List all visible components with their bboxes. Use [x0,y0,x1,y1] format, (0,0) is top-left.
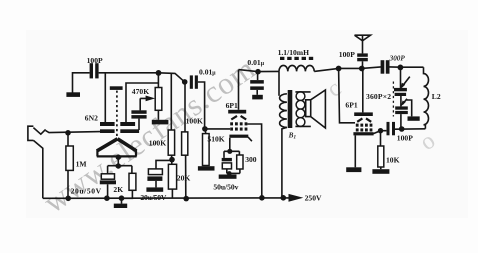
potentiometer 470K [132,74,162,120]
wire 0.01 to grid line [198,82,205,128]
svg-text:100P: 100P [87,56,103,65]
capacitor 20u/50V (cathode bypass left) [101,174,114,179]
capacitor 100P (input tone) [90,63,93,78]
svg-text:20u/50V: 20u/50V [140,193,167,202]
svg-text:1M: 1M [76,160,87,169]
wire 2K bottom to rail [122,190,133,198]
ground (plate bypass) [252,95,263,100]
wire primary bottom to rail [282,127,287,197]
svg-text:300P: 300P [389,54,406,62]
wire cathode to bypass cap and 2K [108,166,132,174]
antenna [355,35,371,53]
wire gang to lower section [400,96,402,106]
tube 6P1 (audio output) [226,101,252,141]
svg-text:10K: 10K [386,156,400,165]
capacitor 50u/50v [222,158,232,161]
node cap-rail [104,195,110,201]
wire cathode to ground [354,135,356,167]
ground (under 100P) [66,92,80,97]
resistor 20K [168,164,176,189]
ground (osc cathode) [346,167,361,172]
scan background tint [26,30,468,218]
node 0.01 in junction [182,79,188,85]
speaker [306,90,326,128]
resistor 1M [66,146,73,170]
capacitor 100P (osc grid) [387,122,390,135]
node plate line junction [156,70,162,76]
transformer B1 primary lead [278,71,280,95]
wire bottom rail [43,197,289,199]
wire 6P1 screen to rail [247,124,261,198]
svg-text:2K: 2K [113,185,123,194]
svg-text:510K: 510K [207,135,224,144]
arrow 250V supply [289,194,304,202]
ground (rail, under 2K) [121,198,123,203]
resistor 100K (left) [168,130,174,155]
svg-text:470K: 470K [132,87,149,96]
capacitor grid coupling (wiper cap) [131,110,146,114]
ground (under 470K) [152,120,169,125]
wire plate line top [99,73,185,82]
svg-text:L2: L2 [432,92,441,101]
wire cathode network join [227,172,240,174]
svg-text:300: 300 [245,155,257,164]
node cathode junction [227,149,232,154]
ground (under 10K) [380,167,382,169]
wire 1M bottom [67,170,69,198]
svg-text:50u/50v: 50u/50v [213,182,238,191]
svg-text:6P1: 6P1 [226,101,238,110]
wire jack sleeve to ground rail [33,140,42,198]
wire grid to 6P1 [205,128,230,130]
capacitor 300P (series antenna) [381,60,385,73]
wire 100K to 20K [171,155,173,164]
node 100K-rail [183,196,189,202]
svg-text:100K: 100K [149,138,166,147]
node plate bypass junction [255,69,261,75]
wire cathode down [117,157,119,166]
wire wiper cap to 6N2 grid [138,119,140,130]
wire gridcap to tank bottom [395,128,425,130]
capacitor 0.01u (coupling to 6P1) [190,75,193,88]
node antenna junction [359,66,365,72]
capacitor 20u/50V (decoupling) [148,169,162,175]
wire left plate lead 6N2 [104,73,106,123]
wire 100P left to ground [73,73,90,93]
node tank top junction [398,65,404,71]
node varcap bottom junction [399,126,405,132]
svg-text:6P1: 6P1 [345,101,357,110]
tube 6N2 [85,86,139,156]
wire cathode to 100P gridcap [373,131,386,134]
resistor 510K [205,129,207,134]
wire oscillator grid [339,69,355,123]
resistor 100K (right) [182,132,188,155]
svg-text:100K: 100K [186,117,203,126]
wire input to grid [46,131,101,133]
inductor L2 [424,67,429,129]
wire cathode to 300 and 50u [224,151,239,158]
wire plate to choke junction [239,70,280,72]
svg-text:20K: 20K [177,173,191,182]
svg-text:360P×2: 360P×2 [366,92,391,101]
svg-text:6N2: 6N2 [85,113,98,122]
node grid junction [336,66,342,72]
wire antenna cap to node [362,61,364,68]
node 2K-ground-rail [119,195,125,201]
variable capacitor 360P (upper) [400,67,402,88]
capacitor 0.01u (plate bypass) [257,72,259,80]
svg-text:100P: 100P [397,133,413,142]
node cathode network [227,171,232,176]
svg-text:1.1/10mH: 1.1/10mH [278,48,310,57]
node 6P1 grid junction [202,126,208,132]
variable capacitor 360P (lower) [395,106,408,109]
wire vanes to ground [407,100,412,116]
node cathode split [116,163,121,168]
wire oscillator plate [362,69,364,113]
svg-text:100P: 100P [339,50,355,59]
wire 6P1 cathode down [229,138,231,152]
wire 6P1 plate up [238,70,240,110]
wire 20K bottom [171,189,173,198]
wire junction to 20u cap [156,160,172,169]
ground (under 20u decoupling) [146,187,163,191]
gang dashed link [392,82,394,117]
resistor 2K [129,173,136,190]
wire 100K-left top [170,73,172,130]
node 6N2 cathode [116,155,121,160]
ground (under 50u/300) [219,175,237,179]
wire choke to antenna node [314,67,381,72]
svg-text:20u/50V: 20u/50V [71,187,102,196]
tube 6P1 (oscillator) [345,101,373,136]
node input junction [65,130,71,136]
wire varcap2 to tank bottom [400,114,402,129]
wire 6N2 right plate to pot top [126,83,158,123]
node 1M-rail [65,196,71,202]
wire 1M top [67,133,69,146]
node decoupling junction [169,157,175,163]
ground (varcap) [408,116,420,120]
wire tank top [390,66,424,68]
wire 100K-right column [184,82,187,198]
node 10K junction [378,128,383,133]
input jack J1 [28,126,46,140]
ground (under 510K) [198,166,215,170]
capacitor 100P (antenna) [357,53,368,56]
transformer B1 [280,90,305,141]
wire secondary to speaker [295,92,310,127]
resistor 10K [380,131,382,146]
watermark www.elecfans.com [37,50,262,220]
node primary-rail [281,195,287,201]
svg-text:250V: 250V [305,194,322,203]
resistor 300 [237,155,243,169]
node screen-rail [259,195,265,201]
wire cap to rail [107,184,109,198]
